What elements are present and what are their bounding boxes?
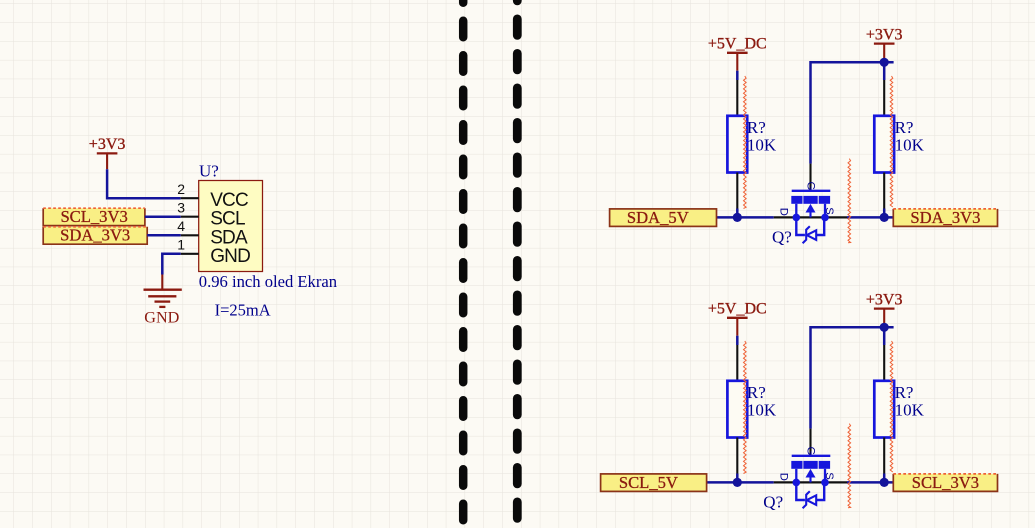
- wire pin 1 to ground: [162, 254, 180, 275]
- svg-text:+3V3: +3V3: [866, 26, 903, 43]
- svg-text:G: G: [804, 182, 816, 191]
- svg-text:+3V3: +3V3: [89, 136, 126, 153]
- resistor left pin bottom: [736, 173, 738, 209]
- wire SDA_3V3 to pin 4: [147, 234, 181, 237]
- svg-text:R?: R?: [895, 383, 914, 402]
- transistor gate bar: [792, 190, 831, 192]
- port SDA_3V3: [43, 227, 147, 244]
- resistor R1 right: [874, 116, 894, 173]
- svg-text:SCL_3V3: SCL_3V3: [912, 473, 979, 492]
- svg-text:2: 2: [177, 181, 185, 197]
- svg-text:SCL_5V: SCL_5V: [619, 473, 678, 492]
- pin 3 (SCL): [181, 216, 199, 218]
- svg-text:3: 3: [177, 199, 185, 215]
- svg-text:10K: 10K: [895, 400, 925, 419]
- svg-text:+3V3: +3V3: [866, 291, 903, 308]
- svg-text:SCL_3V3: SCL_3V3: [60, 207, 127, 226]
- svg-text:SDA_3V3: SDA_3V3: [910, 208, 980, 227]
- page divider dashed line left: [459, 0, 468, 528]
- wire SCL_5V to drain: [707, 481, 774, 484]
- transistor D/S pin lines: [774, 216, 847, 218]
- port SCL_3V3: [893, 474, 997, 492]
- svg-text:10K: 10K: [895, 135, 925, 154]
- svg-text:S: S: [823, 472, 835, 480]
- svg-text:SDA_5V: SDA_5V: [627, 208, 689, 227]
- error marker right: [890, 341, 893, 472]
- wire +3V3 to pin 2: [107, 169, 181, 198]
- transistor Q2 gate pin line: [809, 429, 811, 455]
- svg-text:4: 4: [177, 218, 185, 234]
- wire +3V3 to R right: [883, 327, 886, 345]
- port SDA_5V: [610, 209, 717, 227]
- svg-text:GND: GND: [210, 246, 250, 267]
- resistor right pin top: [883, 80, 885, 116]
- wire top rail: [811, 327, 894, 428]
- body diode (zener-style): [807, 495, 816, 505]
- svg-text:R?: R?: [747, 383, 766, 402]
- body diode (zener-style): [807, 230, 816, 240]
- junction node top: [880, 58, 889, 67]
- junction node right: [880, 213, 889, 222]
- resistor R2 right: [874, 381, 894, 438]
- svg-text:Q?: Q?: [763, 492, 783, 511]
- svg-text:GND: GND: [144, 308, 179, 326]
- svg-text:I=25mA: I=25mA: [215, 301, 271, 320]
- svg-text:SDA_3V3: SDA_3V3: [60, 226, 130, 245]
- transistor source junction dot: [821, 479, 829, 487]
- error marker right: [890, 76, 893, 207]
- transistor gate bar: [792, 455, 831, 457]
- wire power to R: [736, 71, 739, 80]
- transistor drain lead: [795, 469, 797, 483]
- svg-text:1: 1: [177, 236, 185, 252]
- svg-text:10K: 10K: [747, 135, 777, 154]
- transistor drain junction dot: [793, 214, 801, 222]
- svg-text:+5V_DC: +5V_DC: [708, 36, 767, 53]
- resistor right pin bottom: [883, 173, 885, 209]
- transistor source lead: [824, 469, 826, 483]
- page divider dashed line right: [513, 0, 522, 528]
- transistor drain junction dot: [793, 479, 801, 487]
- transistor channel blocks: [791, 196, 830, 204]
- resistor R2 left: [727, 381, 747, 438]
- transistor D/S pin lines: [774, 481, 847, 483]
- error marker middle: [848, 159, 851, 243]
- wire SDA_5V to drain: [717, 216, 774, 219]
- port SDA_3V3: [893, 209, 997, 227]
- transistor substrate arrow: [806, 469, 816, 478]
- junction node left: [733, 213, 742, 222]
- transistor Q1 gate pin line: [809, 164, 811, 190]
- IC U? body: [199, 181, 263, 272]
- transistor body-diode loop: [796, 217, 824, 235]
- error marker left: [744, 76, 747, 209]
- svg-text:G: G: [804, 447, 816, 456]
- resistor R left pin top: [736, 345, 738, 381]
- svg-text:0.96 inch oled Ekran: 0.96 inch oled Ekran: [199, 272, 338, 291]
- pin 4 (SDA): [181, 234, 199, 236]
- transistor body-diode loop: [796, 482, 824, 500]
- resistor left pin bottom: [736, 438, 738, 474]
- junction node right: [880, 478, 889, 487]
- pin 2 (VCC): [181, 197, 199, 199]
- svg-text:U?: U?: [199, 161, 219, 180]
- svg-text:R?: R?: [747, 118, 766, 137]
- transistor substrate arrow: [806, 204, 816, 213]
- junction node left: [733, 478, 742, 487]
- pin 1 (GND): [181, 253, 199, 255]
- transistor source junction dot: [821, 214, 829, 222]
- transistor drain lead: [795, 204, 797, 218]
- wire SCL_3V3 to pin 3: [145, 215, 181, 218]
- wire +3V3 to R right: [883, 62, 886, 80]
- error marker left: [744, 341, 747, 474]
- resistor R1 left: [727, 116, 747, 173]
- svg-text:10K: 10K: [747, 400, 777, 419]
- wire power to R: [736, 336, 739, 345]
- wire source to SDA_3V3: [847, 216, 893, 219]
- ground symbol: [144, 275, 182, 307]
- port SCL_5V: [601, 474, 707, 492]
- port SCL_3V3: [43, 208, 145, 225]
- error marker middle: [848, 424, 851, 508]
- wire top rail: [811, 62, 894, 163]
- resistor right pin top: [883, 345, 885, 381]
- svg-text:Q?: Q?: [772, 227, 792, 246]
- resistor R left pin top: [736, 80, 738, 116]
- transistor channel blocks: [791, 461, 830, 469]
- wire source to SCL_3V3: [847, 481, 893, 484]
- svg-text:+5V_DC: +5V_DC: [708, 301, 767, 318]
- resistor right pin bottom: [883, 438, 885, 474]
- svg-text:D: D: [778, 473, 790, 481]
- svg-text:R?: R?: [895, 118, 914, 137]
- svg-text:D: D: [778, 208, 790, 216]
- junction node top: [880, 323, 889, 332]
- svg-text:S: S: [823, 207, 835, 215]
- transistor source lead: [824, 204, 826, 218]
